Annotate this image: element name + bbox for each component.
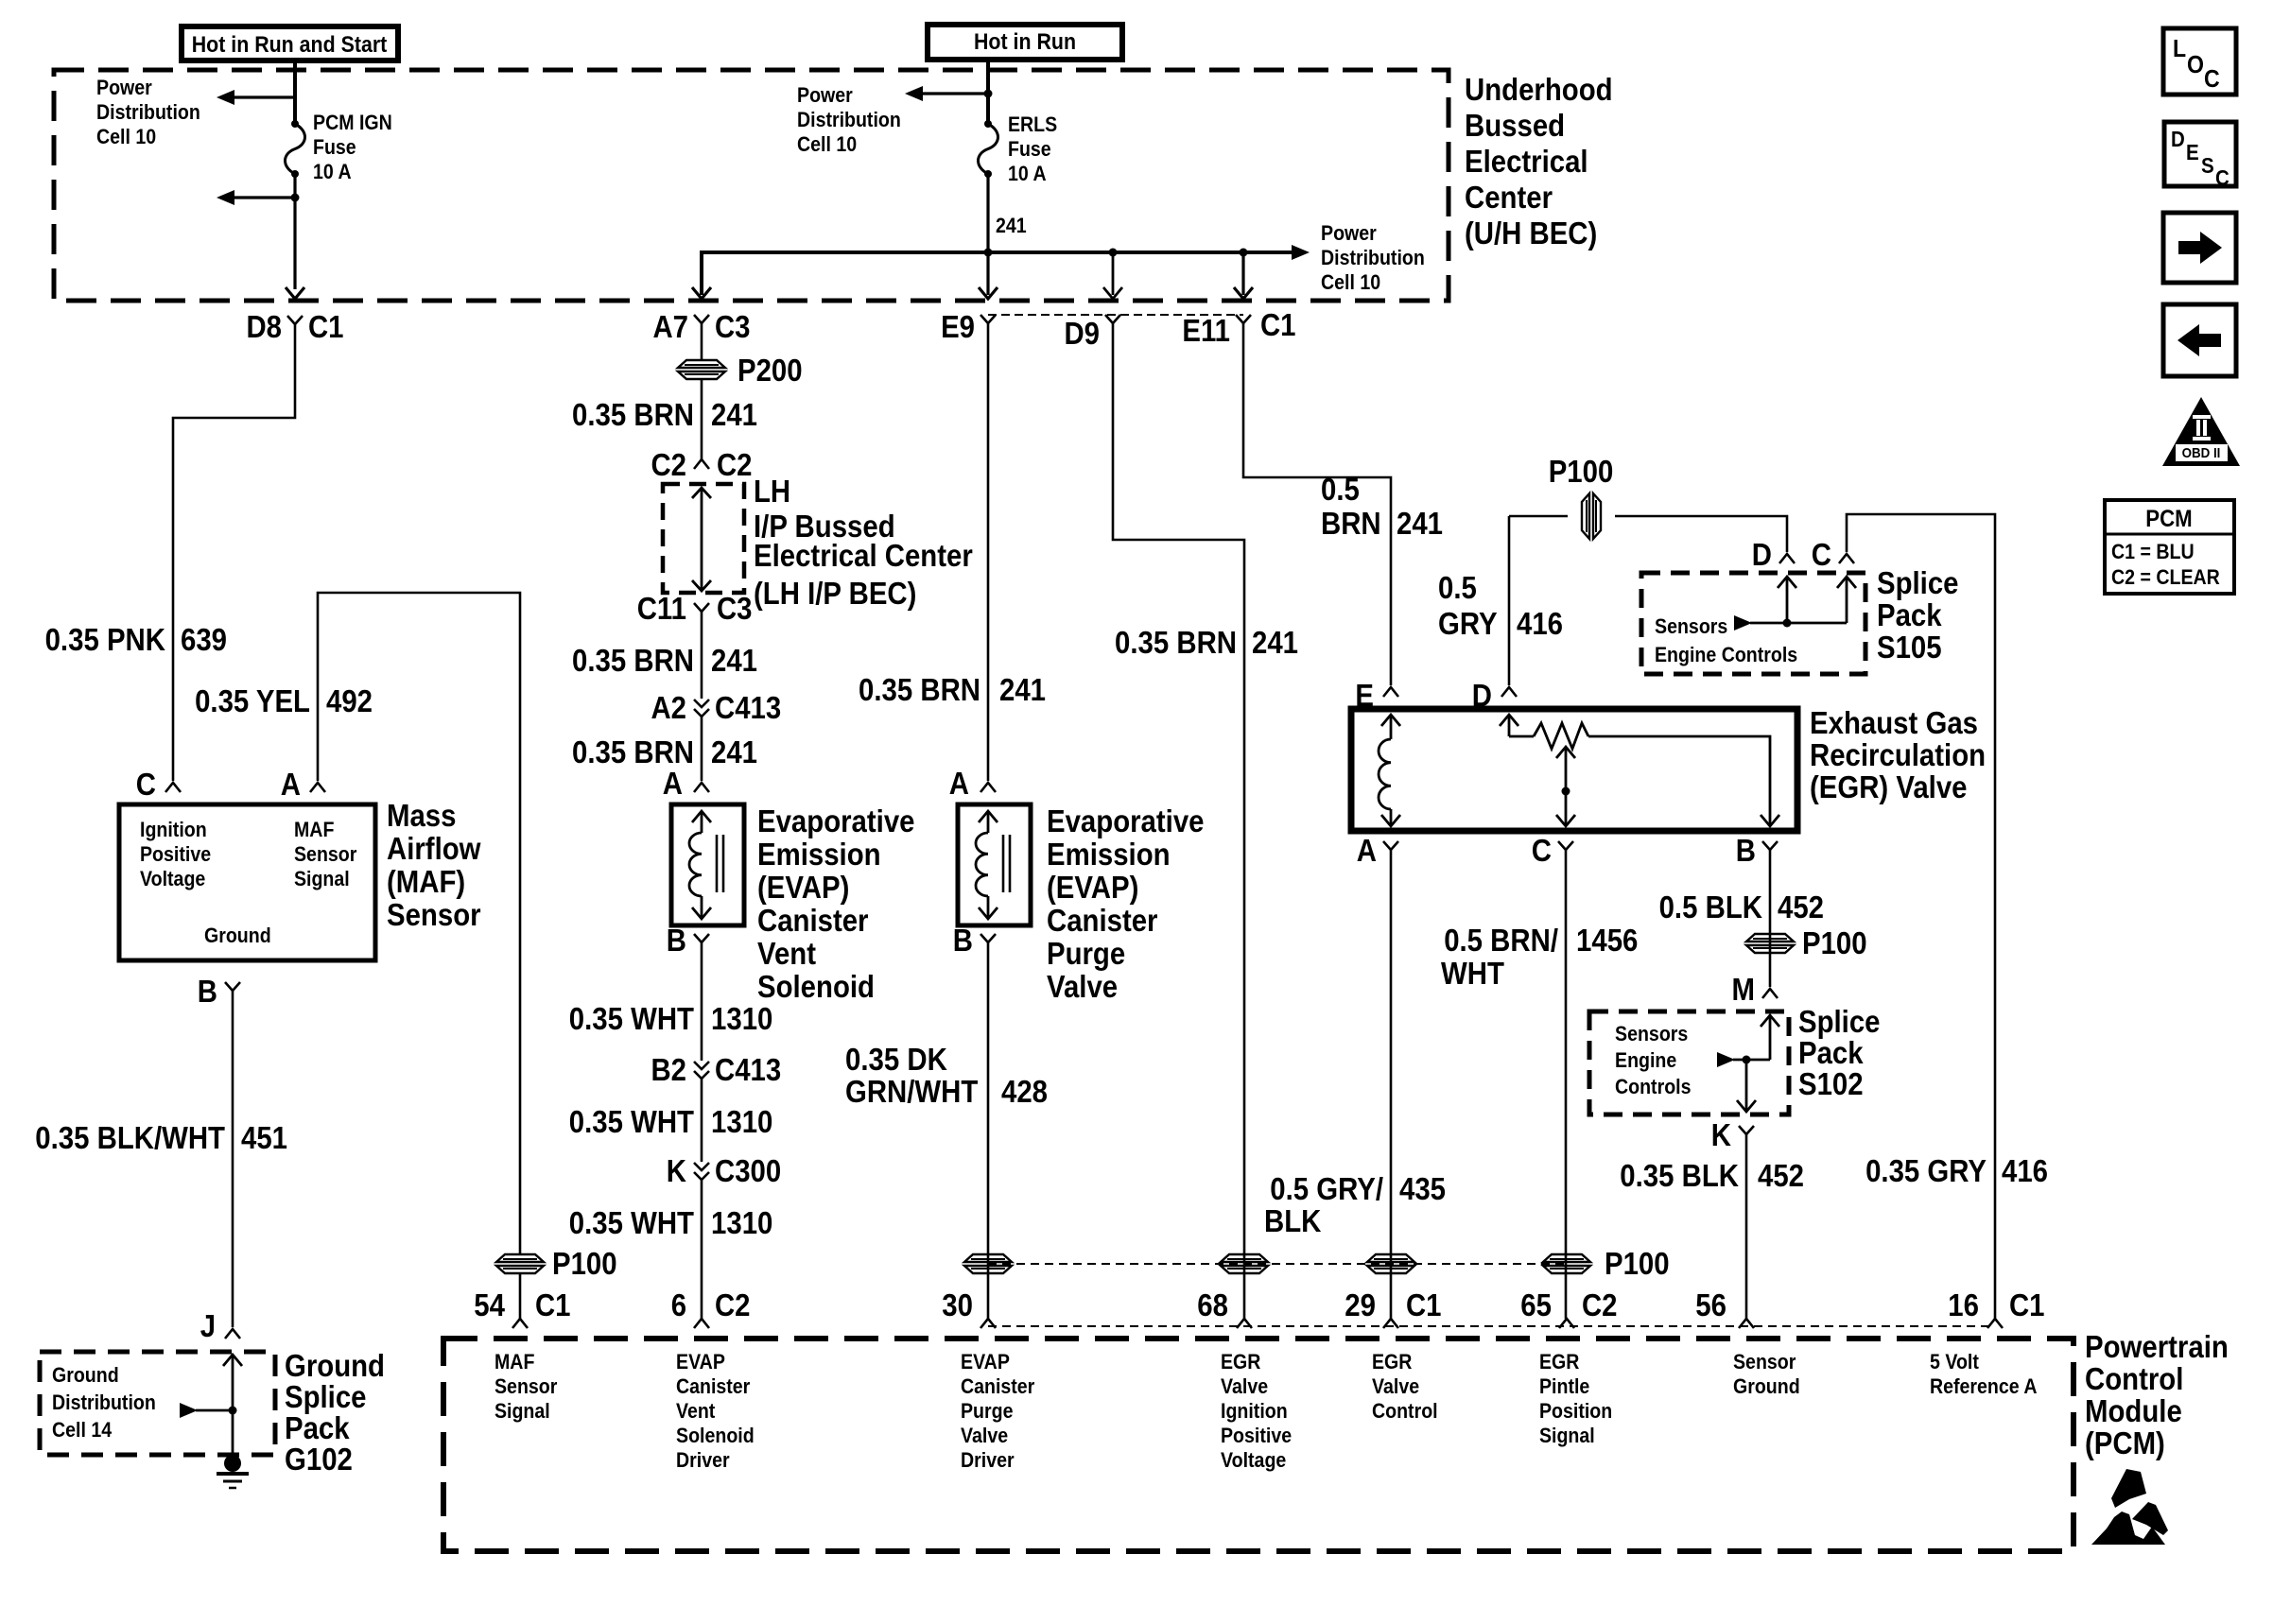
- svg-text:Distribution: Distribution: [797, 108, 901, 131]
- svg-text:241: 241: [999, 672, 1046, 707]
- svg-text:0.35 GRY: 0.35 GRY: [1865, 1153, 1987, 1188]
- svg-text:451: 451: [241, 1120, 287, 1155]
- svg-text:65: 65: [1520, 1287, 1552, 1322]
- splice S102 internal wires: [1717, 1015, 1779, 1112]
- svg-text:Control: Control: [2085, 1361, 2183, 1396]
- svg-text:P200: P200: [737, 353, 803, 388]
- wire C300 to PCM pin 6: [701, 1180, 703, 1319]
- fuse PCM IGN 10 A: [286, 120, 305, 178]
- label Evaporative Emission (EVAP) Canister Purge Valve: [1047, 803, 1205, 1004]
- inline connector P100 (EGR B): [1746, 925, 1867, 960]
- svg-text:Sensor: Sensor: [387, 897, 481, 932]
- svg-text:Emission: Emission: [757, 837, 881, 872]
- svg-text:C2: C2: [715, 1287, 751, 1322]
- label EVAP Canister Purge Valve Driver (pin 30): [961, 1350, 1035, 1472]
- svg-text:0.35 BLK: 0.35 BLK: [1620, 1158, 1739, 1193]
- svg-text:Bussed: Bussed: [1465, 108, 1565, 143]
- svg-text:29: 29: [1345, 1287, 1376, 1322]
- svg-text:Position: Position: [1539, 1399, 1612, 1423]
- svg-text:0.35 WHT: 0.35 WHT: [569, 1001, 694, 1036]
- connector J at ground splice pack: [200, 1308, 240, 1343]
- svg-text:Evaporative: Evaporative: [1047, 803, 1205, 838]
- wire purge valve B to PCM pin 30: [987, 942, 990, 1319]
- label 5 Volt Reference A (pin 16): [1930, 1350, 2038, 1398]
- dashed connector face E9-E11: [988, 314, 1243, 316]
- svg-text:241: 241: [1252, 625, 1298, 660]
- svg-text:BLK: BLK: [1264, 1203, 1322, 1238]
- svg-text:Signal: Signal: [495, 1399, 550, 1423]
- svg-text:Vent: Vent: [676, 1399, 716, 1423]
- label Splice Pack S102: [1798, 1004, 1881, 1101]
- sidebar back arrow box: [2163, 304, 2236, 376]
- svg-text:C: C: [2204, 64, 2220, 93]
- svg-text:0.5: 0.5: [1438, 570, 1477, 605]
- svg-text:C2: C2: [717, 447, 753, 482]
- pin B of EGR valve: [1736, 833, 1778, 868]
- inline connector P100 (pintle signal): [1543, 1246, 1670, 1281]
- inline connector K/C300: [667, 1153, 781, 1188]
- EVAP canister vent solenoid box: [671, 804, 744, 925]
- label 0.35 PNK 639: [45, 622, 227, 657]
- label Power Distribution Cell 10 (right): [1321, 221, 1425, 294]
- svg-text:241: 241: [711, 734, 757, 769]
- connector C of splice pack S105: [1812, 537, 1854, 572]
- ESD sensitivity symbol: [2091, 1469, 2168, 1545]
- wire C413 to EVAP vent solenoid pin A: [701, 717, 703, 781]
- wire B to C413 (1310): [701, 942, 703, 1061]
- svg-text:10 A: 10 A: [1008, 162, 1047, 185]
- svg-text:0.5 BLK: 0.5 BLK: [1659, 890, 1763, 924]
- wire P100 to PCM pin 54: [519, 1274, 522, 1319]
- label MAF Sensor Signal (pin 54): [495, 1350, 558, 1423]
- label 0.35 BRN 241 (C413-A): [572, 734, 757, 769]
- connector E11/C1: [1182, 307, 1295, 348]
- svg-text:Power: Power: [797, 83, 853, 107]
- svg-text:Voltage: Voltage: [1221, 1448, 1286, 1472]
- EGR potentiometer wiper: [1556, 747, 1575, 826]
- splice S105 internal wires: [1734, 577, 1856, 631]
- pin C of MAF sensor: [136, 767, 181, 802]
- svg-text:C3: C3: [717, 591, 753, 626]
- PCM connector legend box: [2105, 500, 2234, 594]
- svg-text:G102: G102: [285, 1442, 353, 1477]
- svg-text:ERLS: ERLS: [1008, 112, 1057, 136]
- label 0.35 WHT 1310 (middle): [569, 1104, 773, 1139]
- svg-text:Driver: Driver: [676, 1448, 730, 1472]
- pin A of EGR valve: [1357, 833, 1398, 868]
- wire through LH I/P BEC with arrows: [692, 488, 711, 591]
- connector K of splice pack S102: [1711, 1117, 1754, 1152]
- svg-text:A: A: [1357, 833, 1377, 868]
- svg-text:Power: Power: [96, 76, 152, 99]
- svg-text:0.35 BRN: 0.35 BRN: [572, 643, 694, 678]
- PCM pin 54 connector: [474, 1287, 570, 1328]
- svg-text:Ground: Ground: [204, 924, 271, 947]
- svg-text:S102: S102: [1798, 1066, 1864, 1101]
- svg-text:Distribution: Distribution: [96, 100, 200, 124]
- pin A of MAF sensor: [281, 767, 325, 802]
- svg-text:Emission: Emission: [1047, 837, 1171, 872]
- svg-text:Solenoid: Solenoid: [757, 969, 875, 1004]
- svg-text:Sensors: Sensors: [1655, 614, 1727, 638]
- svg-text:A: A: [281, 767, 301, 802]
- svg-text:Ground: Ground: [1733, 1374, 1800, 1398]
- svg-text:Splice: Splice: [1798, 1004, 1881, 1039]
- svg-text:MAF: MAF: [495, 1350, 534, 1373]
- Powertrain Control Module dashed box: [443, 1339, 2073, 1551]
- svg-text:639: 639: [181, 622, 227, 657]
- pin A of EVAP vent solenoid: [663, 766, 709, 801]
- splice pack S105 dashed box: [1641, 573, 1865, 674]
- label EGR Pintle Position Signal (pin 65): [1539, 1350, 1612, 1447]
- svg-text:Sensor: Sensor: [294, 842, 357, 866]
- svg-text:PCM: PCM: [2145, 506, 2192, 532]
- svg-text:B: B: [1736, 833, 1756, 868]
- power box "Hot in Run": [928, 25, 1122, 60]
- wire D8 to MAF pin C (0.35 PNK 639): [173, 324, 295, 781]
- wire A7 to P200: [701, 323, 703, 360]
- wire EGR pin A to PCM pin 29: [1390, 850, 1393, 1319]
- svg-text:C: C: [1812, 537, 1831, 572]
- svg-text:Positive: Positive: [140, 842, 211, 866]
- svg-text:241: 241: [996, 214, 1027, 237]
- svg-text:416: 416: [2002, 1153, 2048, 1188]
- svg-text:Valve: Valve: [1047, 969, 1118, 1004]
- svg-text:241: 241: [1397, 506, 1443, 541]
- wire from Hot in Run to ERLS fuse: [984, 60, 993, 124]
- EVAP canister purge valve coil: [976, 811, 1010, 919]
- svg-text:Pack: Pack: [1798, 1035, 1864, 1070]
- svg-text:WHT: WHT: [1441, 956, 1504, 991]
- svg-text:Purge: Purge: [961, 1399, 1014, 1423]
- labels inside MAF sensor box: [140, 818, 357, 947]
- svg-text:Ignition: Ignition: [140, 818, 207, 841]
- wire fuse to connector D8: [293, 174, 296, 289]
- EVAP canister purge valve box: [958, 804, 1031, 925]
- svg-text:5 Volt: 5 Volt: [1930, 1350, 1980, 1373]
- fuse ERLS 10 A: [979, 120, 998, 178]
- svg-text:P100: P100: [552, 1246, 617, 1281]
- svg-text:C: C: [1532, 833, 1552, 868]
- PCM pin 29 connector: [1345, 1287, 1441, 1328]
- inline connector P100 (EGR ign): [1221, 1254, 1268, 1273]
- svg-text:Purge: Purge: [1047, 936, 1125, 971]
- label Splice Pack S105: [1877, 565, 1959, 665]
- svg-text:B: B: [953, 923, 973, 958]
- svg-text:Underhood: Underhood: [1465, 72, 1613, 107]
- svg-text:Valve: Valve: [1372, 1374, 1419, 1398]
- wire bus to E11: [1241, 252, 1244, 295]
- PCM pin 16 connector: [1948, 1287, 2044, 1328]
- svg-text:Hot in Run: Hot in Run: [974, 29, 1076, 55]
- svg-text:B: B: [667, 923, 686, 958]
- sidebar forward arrow box: [2163, 213, 2236, 283]
- arrow to Power Distribution Cell 10 (lower left): [217, 190, 300, 205]
- svg-text:EGR: EGR: [1372, 1350, 1412, 1373]
- svg-text:Hot in Run and Start: Hot in Run and Start: [192, 32, 388, 58]
- label 0.35 BLK 452: [1620, 1158, 1804, 1193]
- svg-text:C1 = BLU: C1 = BLU: [2111, 540, 2195, 563]
- svg-text:PCM IGN: PCM IGN: [313, 111, 392, 134]
- svg-text:K: K: [1711, 1117, 1731, 1152]
- label EGR Valve Control (pin 29): [1372, 1350, 1438, 1423]
- svg-text:1456: 1456: [1576, 923, 1638, 958]
- svg-text:E: E: [2186, 140, 2199, 164]
- svg-text:Pack: Pack: [285, 1410, 350, 1445]
- svg-text:1310: 1310: [711, 1001, 772, 1036]
- svg-text:Fuse: Fuse: [1008, 137, 1051, 161]
- svg-text:K: K: [667, 1153, 686, 1188]
- svg-text:E11: E11: [1182, 313, 1230, 348]
- svg-text:Control: Control: [1372, 1399, 1438, 1423]
- label Powertrain Control Module (PCM): [2085, 1329, 2229, 1460]
- svg-text:Positive: Positive: [1221, 1424, 1292, 1447]
- svg-text:C11: C11: [637, 591, 686, 626]
- inline connector P100 (purge driver): [964, 1254, 1012, 1273]
- MAF sensor box: [119, 804, 375, 960]
- PCM pin 6 connector: [671, 1287, 751, 1328]
- svg-text:D: D: [1752, 537, 1772, 572]
- svg-text:0.35 DK: 0.35 DK: [845, 1042, 947, 1077]
- svg-text:Airflow: Airflow: [387, 831, 481, 866]
- svg-text:Pack: Pack: [1877, 597, 1942, 632]
- label Mass Airflow (MAF) Sensor: [387, 798, 481, 932]
- EGR solenoid coil (E-A): [1379, 715, 1400, 826]
- svg-text:Canister: Canister: [676, 1374, 751, 1398]
- svg-text:Valve: Valve: [961, 1424, 1008, 1447]
- svg-text:P100: P100: [1549, 454, 1614, 489]
- pin B of EVAP vent solenoid: [667, 923, 709, 958]
- svg-text:M: M: [1732, 972, 1756, 1007]
- dashed harness line through P100 row: [988, 1263, 1569, 1265]
- label 0.35 GRY 416 (5V ref wire): [1865, 1153, 2048, 1188]
- splice pack S102 dashed box: [1589, 1011, 1789, 1114]
- svg-text:Splice: Splice: [1877, 565, 1959, 600]
- svg-text:56: 56: [1695, 1287, 1726, 1322]
- connector D8/C1: [247, 309, 344, 344]
- svg-text:P100: P100: [1802, 925, 1867, 960]
- label LH I/P Bussed Electrical Center (LH I/P BEC): [754, 474, 973, 611]
- svg-text:Engine: Engine: [1615, 1048, 1676, 1072]
- svg-text:Power: Power: [1321, 221, 1377, 245]
- power box "Hot in Run and Start": [182, 26, 398, 60]
- sidebar DESC box: [2164, 122, 2236, 190]
- svg-text:Ground: Ground: [52, 1363, 119, 1387]
- pin C of EGR valve: [1532, 833, 1573, 868]
- svg-text:Signal: Signal: [294, 867, 350, 890]
- LH I/P Bussed Electrical Center dashed box: [663, 484, 744, 593]
- connector C11/C3: [637, 591, 753, 626]
- svg-text:241: 241: [711, 397, 757, 432]
- svg-text:Exhaust Gas: Exhaust Gas: [1810, 705, 1978, 740]
- svg-text:D9: D9: [1065, 316, 1101, 351]
- svg-text:C413: C413: [715, 690, 781, 725]
- svg-text:C3: C3: [715, 309, 751, 344]
- svg-text:P100: P100: [1605, 1246, 1670, 1281]
- label 0.35 BLK/WHT 451: [35, 1120, 287, 1155]
- svg-text:(U/H BEC): (U/H BEC): [1465, 216, 1597, 251]
- wire EGR pin C to PCM pin 65: [1565, 850, 1568, 1319]
- wire C of S105 to 5 volt reference (pin 16): [1847, 514, 1995, 1319]
- label Power Distribution Cell 10 (left): [96, 76, 200, 148]
- svg-text:C1: C1: [535, 1287, 571, 1322]
- label 0.35 BRN 241 (A7-C2): [572, 397, 757, 432]
- EVAP canister vent solenoid coil: [689, 811, 723, 919]
- svg-text:0.35 YEL: 0.35 YEL: [195, 683, 310, 718]
- svg-text:EVAP: EVAP: [676, 1350, 725, 1373]
- svg-text:C: C: [136, 767, 156, 802]
- Underhood Bussed Electrical Center dashed box: [54, 70, 1449, 301]
- inline connector P100 (sensors feed): [1549, 454, 1614, 539]
- label Sensors Engine Controls (S105): [1655, 614, 1797, 666]
- svg-text:452: 452: [1778, 890, 1824, 924]
- label Underhood Bussed Electrical Center (U/H BEC): [1465, 72, 1613, 251]
- wire bus to E9: [986, 252, 989, 295]
- svg-text:Sensor: Sensor: [495, 1374, 558, 1398]
- svg-text:A: A: [663, 766, 683, 801]
- svg-text:Signal: Signal: [1539, 1424, 1595, 1447]
- svg-text:GRN/WHT: GRN/WHT: [845, 1074, 978, 1109]
- svg-text:Cell 10: Cell 10: [797, 132, 857, 156]
- svg-text:Driver: Driver: [961, 1448, 1015, 1472]
- svg-text:Distribution: Distribution: [1321, 246, 1425, 269]
- inline connector P200: [678, 353, 803, 388]
- svg-text:0.35 BLK/WHT: 0.35 BLK/WHT: [35, 1120, 225, 1155]
- svg-text:(EVAP): (EVAP): [757, 870, 849, 905]
- svg-text:Module: Module: [2085, 1393, 2182, 1428]
- OBD II symbol: [2162, 397, 2240, 466]
- svg-text:D8: D8: [247, 309, 283, 344]
- svg-text:0.35 BRN: 0.35 BRN: [572, 734, 694, 769]
- svg-text:16: 16: [1948, 1287, 1979, 1322]
- arrow into U/H BEC bottom (D9 branch): [1103, 287, 1122, 299]
- svg-text:0.35 WHT: 0.35 WHT: [569, 1104, 694, 1139]
- label PCM IGN Fuse 10 A: [313, 111, 392, 183]
- svg-text:Recirculation: Recirculation: [1810, 737, 1986, 772]
- svg-text:Fuse: Fuse: [313, 135, 356, 159]
- svg-text:Distribution: Distribution: [52, 1391, 156, 1414]
- svg-text:(PCM): (PCM): [2085, 1425, 2165, 1460]
- svg-text:0.5 BRN/: 0.5 BRN/: [1444, 923, 1558, 958]
- sidebar LOC box: [2163, 28, 2236, 95]
- svg-text:(EGR) Valve: (EGR) Valve: [1810, 769, 1968, 804]
- svg-text:J: J: [200, 1308, 216, 1343]
- svg-text:Canister: Canister: [961, 1374, 1035, 1398]
- svg-text:435: 435: [1399, 1171, 1446, 1206]
- svg-text:(LH I/P BEC): (LH I/P BEC): [754, 576, 916, 611]
- svg-text:S105: S105: [1877, 630, 1942, 665]
- svg-text:Electrical Center: Electrical Center: [754, 538, 973, 573]
- svg-text:C: C: [2215, 165, 2230, 190]
- svg-text:Engine Controls: Engine Controls: [1655, 643, 1797, 666]
- svg-text:Powertrain: Powertrain: [2085, 1329, 2229, 1364]
- label circuit 241 (bus): [996, 214, 1027, 237]
- wire from Hot in Run and Start to PCM IGN fuse: [293, 60, 297, 124]
- svg-text:452: 452: [1758, 1158, 1804, 1193]
- wire bus to D9: [1112, 252, 1115, 295]
- svg-text:B: B: [198, 974, 217, 1009]
- svg-text:LH: LH: [754, 474, 790, 509]
- label EGR Valve Ignition Positive Voltage (pin 68): [1221, 1350, 1292, 1472]
- pin A of EVAP purge valve: [949, 766, 996, 801]
- svg-text:OBD II: OBD II: [2182, 445, 2221, 461]
- svg-text:241: 241: [711, 643, 757, 678]
- wire P100 to splice pack D: [1615, 516, 1787, 552]
- svg-text:A: A: [949, 766, 969, 801]
- svg-text:Mass: Mass: [387, 798, 457, 833]
- svg-text:Cell 10: Cell 10: [96, 125, 156, 148]
- svg-text:6: 6: [671, 1287, 686, 1322]
- svg-text:L: L: [2173, 34, 2186, 62]
- svg-text:416: 416: [1517, 606, 1563, 641]
- arrow into U/H BEC bottom (A7 branch): [692, 287, 711, 299]
- svg-text:Reference A: Reference A: [1930, 1374, 2038, 1398]
- inline connector B2/C413: [651, 1052, 782, 1087]
- pin B of EVAP purge valve: [953, 923, 996, 958]
- svg-text:Vent: Vent: [757, 936, 816, 971]
- svg-text:C300: C300: [715, 1153, 781, 1188]
- svg-text:C413: C413: [715, 1052, 781, 1087]
- wire MAF pin B to G102 (0.35 BLK/WHT 451): [232, 991, 234, 1327]
- label 0.35 YEL 492: [195, 683, 373, 718]
- arrow into U/H BEC bottom (E9 branch): [979, 287, 998, 299]
- wire K to PCM pin 56: [1745, 1134, 1748, 1319]
- svg-text:Pintle: Pintle: [1539, 1374, 1589, 1398]
- svg-text:Cell 14: Cell 14: [52, 1418, 113, 1442]
- svg-text:Electrical: Electrical: [1465, 144, 1588, 179]
- svg-text:E9: E9: [941, 309, 975, 344]
- svg-text:EVAP: EVAP: [961, 1350, 1010, 1373]
- wire E9 to EVAP purge valve pin A: [987, 323, 990, 781]
- svg-text:428: 428: [1001, 1074, 1048, 1109]
- label 0.5 GRY 416: [1438, 570, 1563, 641]
- label 0.35 BRN 241 (E9 wire): [859, 672, 1046, 707]
- svg-text:0.35 WHT: 0.35 WHT: [569, 1205, 694, 1240]
- arrow to Power Distribution Cell 10 (upper left): [217, 90, 295, 105]
- svg-text:C1: C1: [2009, 1287, 2045, 1322]
- svg-text:C2 = CLEAR: C2 = CLEAR: [2111, 565, 2220, 589]
- wire D9 to PCM pin 68: [1113, 323, 1244, 1319]
- label Ground Splice Pack G102: [285, 1348, 385, 1477]
- arrow into U/H BEC bottom (E11 branch): [1234, 287, 1253, 299]
- svg-text:0.35 PNK: 0.35 PNK: [45, 622, 166, 657]
- wire C413 to C300: [701, 1079, 703, 1162]
- svg-text:C2: C2: [1582, 1287, 1618, 1322]
- arrow into U/H BEC bottom edge (left): [286, 287, 304, 299]
- svg-text:492: 492: [326, 683, 373, 718]
- label Evaporative Emission (EVAP) Canister Vent Solenoid: [757, 803, 915, 1004]
- connector C2/C2: [651, 447, 753, 482]
- label Sensor Ground (pin 56): [1733, 1350, 1800, 1398]
- svg-text:0.5: 0.5: [1321, 472, 1360, 507]
- label ERLS Fuse 10 A: [1008, 112, 1057, 185]
- label 0.35 BRN 241 (C11-A2): [572, 643, 757, 678]
- svg-text:Splice: Splice: [285, 1379, 367, 1414]
- svg-text:0.35 BRN: 0.35 BRN: [572, 397, 694, 432]
- inline connector P100 (MAF signal): [496, 1246, 617, 1281]
- G102 internal wires: [180, 1355, 242, 1456]
- wire MAF pin A to PCM pin 54 (0.35 YEL 492): [318, 593, 520, 1253]
- label 0.5 BRN 241 (E11 wire): [1321, 472, 1443, 541]
- bus wire 241 inside U/H BEC: [702, 249, 1292, 296]
- label 0.35 DK GRN/WHT 428: [845, 1042, 1048, 1109]
- svg-text:GRY: GRY: [1438, 606, 1498, 641]
- svg-text:Center: Center: [1465, 180, 1553, 215]
- PCM pin 68 connector: [1197, 1287, 1252, 1328]
- label 0.35 WHT 1310 (lower): [569, 1205, 773, 1240]
- svg-text:A2: A2: [651, 690, 687, 725]
- wire EGR pin D to P100 junction: [1509, 516, 1568, 685]
